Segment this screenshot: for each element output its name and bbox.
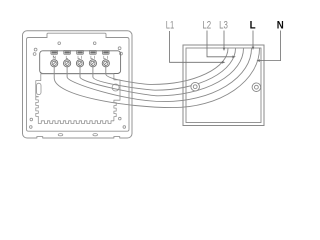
terminal label L	[66, 56, 68, 59]
leader N	[257, 31, 281, 62]
svg-text:L2: L2	[202, 20, 211, 32]
terminal screw L3	[102, 60, 109, 67]
wall box outer	[183, 45, 264, 126]
wire L terminal to box	[67, 48, 251, 101]
label L3	[219, 20, 228, 32]
leader L3	[223, 31, 226, 52]
terminal block	[40, 51, 121, 74]
terminal clamp plate L	[64, 50, 71, 54]
wall box inner	[186, 48, 261, 123]
wire L3 terminal to box	[106, 48, 228, 84]
terminal clamp plate N	[51, 50, 58, 54]
terminal clamp plate L2	[90, 50, 97, 54]
wire L1 terminal to box	[80, 48, 244, 96]
leader L	[252, 31, 255, 51]
leader L1	[170, 31, 226, 64]
terminal screw N	[51, 60, 58, 67]
svg-text:L3: L3	[219, 20, 228, 32]
bottom edge notch right	[114, 137, 120, 140]
module tab right with hole	[112, 84, 119, 91]
terminal screw L2	[89, 60, 96, 67]
svg-text:N: N	[277, 20, 284, 32]
terminal label L2	[91, 56, 95, 59]
terminal label L1	[78, 56, 82, 59]
switch back panel outer frame	[23, 31, 133, 138]
tab screw hole right	[93, 42, 96, 45]
terminal label N	[53, 56, 55, 59]
wire L2 terminal to box	[93, 48, 236, 90]
terminal clamp plate L1	[77, 50, 84, 54]
terminal screw L1	[76, 60, 83, 67]
relay module body with cooling teeth	[36, 74, 120, 124]
wire N terminal to box	[54, 48, 259, 107]
label L2	[202, 20, 211, 32]
plate hole upper-right pair	[118, 47, 122, 55]
svg-text:L1: L1	[166, 20, 174, 32]
module slot left	[37, 83, 41, 94]
label N	[277, 20, 284, 32]
leader L2	[207, 31, 236, 59]
bottom slot right	[93, 134, 98, 136]
plate hole lower-right	[119, 117, 126, 128]
terminal screw L	[64, 60, 71, 67]
plate hole lower-left	[30, 118, 33, 128]
label L	[250, 20, 256, 32]
svg-text:L: L	[250, 20, 256, 32]
bottom edge notch left	[37, 137, 43, 140]
wall box screw right	[252, 83, 261, 92]
terminal label L3	[104, 56, 108, 59]
terminal clamp plate L3	[103, 50, 110, 54]
bottom slot left	[58, 134, 63, 136]
plate hole upper-left pair	[33, 48, 37, 55]
label L1	[166, 20, 174, 32]
switch mounting plate with top tab	[27, 33, 130, 131]
tab screw hole left	[58, 42, 61, 45]
wall box screw left	[191, 82, 200, 91]
